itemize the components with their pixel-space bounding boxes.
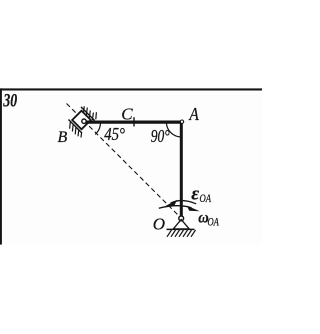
arrow epsilon_OA (upper arc, arrowhead left): [171, 201, 197, 204]
angle arc 90 at A: [166, 122, 181, 137]
dashed guide line through B to O: [67, 104, 182, 219]
bar BCA (horizontal link): [84, 120, 183, 123]
svg-text:B: B: [58, 129, 68, 146]
crank OA (vertical bar): [180, 121, 183, 216]
joint A dot: [180, 120, 183, 123]
svg-text:90°: 90°: [151, 126, 170, 146]
svg-text:O: O: [153, 215, 165, 234]
table top border: [0, 88, 262, 90]
pivot O triangle support: [173, 220, 189, 229]
arrow omega_OA (lower arc, arrowhead right): [159, 206, 192, 209]
svg-text:45°: 45°: [104, 124, 125, 144]
svg-text:A: A: [189, 104, 200, 124]
guide hatching lower: [70, 121, 82, 137]
slider block B (rotated square): [72, 111, 91, 130]
svg-text:OA: OA: [200, 191, 212, 205]
svg-text:30: 30: [3, 92, 18, 112]
guide wall lower: [69, 120, 83, 134]
pivot O pin circle: [179, 216, 184, 221]
svg-text:C: C: [121, 104, 133, 123]
svg-text:OA: OA: [208, 215, 220, 229]
tick mark C: [133, 117, 135, 126]
angle arc 45 at B: [95, 122, 100, 134]
table left border: [0, 88, 2, 244]
pin B circle: [82, 119, 86, 123]
ground line at O: [167, 228, 195, 230]
ground hatching at O: [167, 230, 196, 237]
guide wall upper: [81, 107, 95, 121]
guide hatching upper: [83, 106, 96, 120]
svg-text:ε: ε: [191, 184, 199, 205]
cell background: [0, 90, 262, 244]
